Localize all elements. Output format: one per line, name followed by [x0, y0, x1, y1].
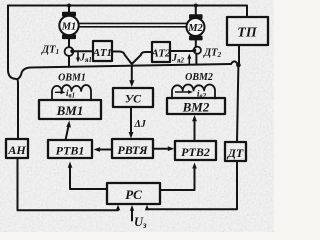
block AN	[6, 139, 28, 158]
svg-text:РВТЯ: РВТЯ	[117, 143, 148, 157]
svg-text:ΔJ: ΔJ	[134, 119, 147, 130]
wire: AN down and to RS with arrow	[18, 158, 121, 210]
block RVTYa	[112, 139, 153, 158]
svg-text:ОВМ2: ОВМ2	[185, 72, 213, 83]
block VM2	[167, 98, 225, 114]
junction node top of M1	[67, 4, 71, 8]
wire: merged current signals into US with arrow	[129, 63, 134, 87]
svg-text:М2: М2	[187, 23, 203, 34]
wire: RTV1 to VM1 with arrow	[66, 121, 71, 141]
wire: TP down to bus node	[238, 45, 240, 65]
wire: top bus to M1	[68, 6, 70, 14]
block US	[113, 88, 153, 107]
wire: AT2 input from DT2 tap	[170, 50, 194, 52]
svg-text:РТВ1: РТВ1	[56, 144, 85, 158]
svg-text:ВМ2: ВМ2	[182, 100, 210, 115]
wire: RVTYa to RTV1 with arrow	[94, 147, 113, 152]
svg-text:М1: М1	[61, 22, 77, 33]
junction node top of M2	[194, 4, 198, 8]
wire: top bus to M2	[195, 6, 197, 16]
svg-text:АТ2: АТ2	[150, 48, 171, 60]
wire: node down to DT block	[237, 65, 238, 142]
block VM1	[39, 100, 101, 119]
wire: left frame down and curl to AN	[8, 6, 18, 140]
svg-text:ОВМ1: ОВМ1	[58, 73, 86, 84]
wire: top armature bus from left frame to TP	[8, 6, 247, 18]
block DT	[225, 142, 246, 161]
current sensor DT2 on M2 armature wire	[192, 40, 201, 65]
block TP	[227, 17, 268, 45]
wire: DT down and to RS with arrow	[145, 161, 237, 210]
shaft coupling M1-M2 (double line)	[79, 22, 187, 24]
motor M1	[59, 13, 78, 38]
wire: bus hop before TP node	[231, 61, 238, 64]
arrow Jya1 (down)	[76, 53, 80, 63]
svg-text:АТ1: АТ1	[92, 47, 112, 59]
svg-text:ВМ1: ВМ1	[56, 103, 84, 118]
wire: RVTYa to RTV2 with arrow	[153, 146, 174, 151]
svg-text:УС: УС	[125, 92, 142, 106]
current arrow iv2 inside OVM2	[176, 90, 194, 94]
block AT1	[93, 41, 112, 61]
wire: RS to RTV1 with arrow	[68, 162, 107, 190]
arrow Uz into RS	[130, 205, 134, 221]
wire: RTV2 to VM2 with arrow	[192, 115, 197, 141]
junction node bus/TP	[236, 63, 241, 68]
wire: DT1 tap to AT1	[72, 50, 93, 52]
winding OVM1	[52, 85, 91, 100]
svg-text:ТП: ТП	[237, 26, 258, 41]
block RTV2	[175, 141, 216, 160]
current arrow iv1 inside OVM1	[56, 90, 66, 94]
block RS	[107, 183, 160, 204]
wire: armature bottom bus with left hook	[17, 64, 231, 79]
block RTV1	[48, 140, 92, 158]
arrow Jya2 (up)	[187, 54, 191, 64]
wire: AT1 output hook to US line	[112, 52, 131, 64]
svg-text:РС: РС	[125, 187, 142, 202]
svg-text:РТВ2: РТВ2	[181, 145, 210, 159]
block AT2	[152, 42, 170, 62]
current sensor DT1 on M1 armature wire	[65, 38, 75, 66]
winding OVM2	[172, 85, 215, 99]
wire: AT2 output hook to US line	[132, 52, 152, 64]
motor M2	[187, 15, 205, 39]
svg-text:АН: АН	[7, 143, 26, 157]
svg-text:ДТ: ДТ	[227, 146, 244, 160]
wire: US to RVTYa with arrow	[129, 107, 134, 139]
wire: RS to RTV2 with arrow	[160, 163, 197, 191]
